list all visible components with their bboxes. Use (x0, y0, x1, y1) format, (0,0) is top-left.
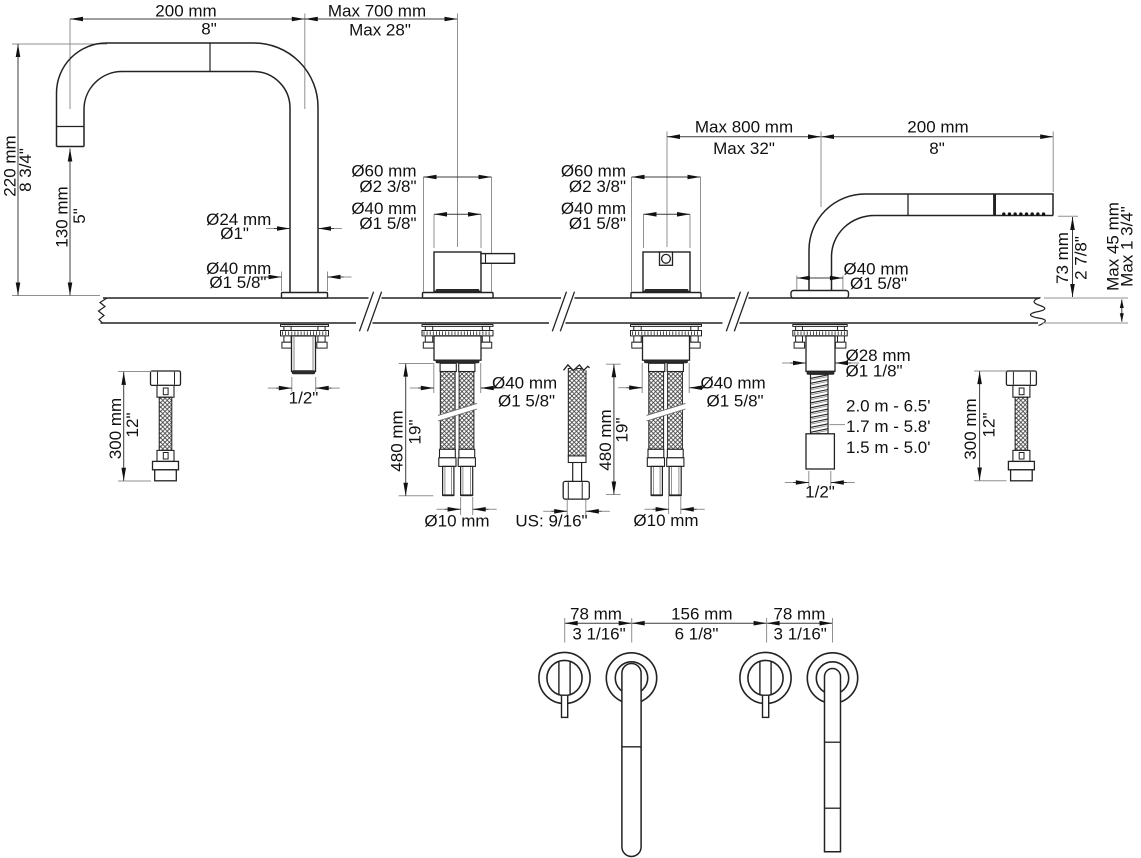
extension lines US 9/16 (566, 500, 568, 515)
svg-text:19": 19" (406, 420, 425, 445)
flex hose bottom collar (157, 450, 174, 461)
hand shower handle seam (907, 194, 909, 216)
serrated lock ring (631, 331, 702, 336)
extension lines handle1 flange (423, 177, 425, 292)
shower hose spiral (811, 374, 829, 434)
dimension 300 mm left (118, 371, 152, 373)
tub spout inner contour (84, 72, 290, 293)
svg-text:Ø40 mm: Ø40 mm (701, 373, 766, 392)
shower hose end fitting (806, 434, 834, 469)
svg-text:Ø1 5/8": Ø1 5/8" (707, 391, 764, 410)
deck thin extension to Max45 dimension (1044, 297, 1128, 299)
dimension Ø60 mm handle1 (424, 176, 492, 178)
hand shower tailpiece body (806, 336, 835, 371)
extension lines spout flange (281, 272, 283, 292)
dimension 480 mm hoses left (399, 363, 434, 365)
tub spout outer contour (57, 43, 319, 293)
dimension 1/2 inch spout connection (276, 387, 292, 389)
dimension 1/2 inch shower connection (793, 482, 809, 484)
flex hose braided body (1015, 397, 1028, 450)
hand shower inner contour (832, 216, 1054, 291)
pipe end line (651, 494, 662, 496)
dimension Ø10 mm pipes left (460, 497, 462, 515)
svg-text:Max 800 mm: Max 800 mm (695, 117, 793, 136)
dimension Ø40 mm spout flange (266, 276, 282, 278)
dimension Ø40 mm under handle1 (418, 387, 434, 389)
valve body under deck (643, 336, 690, 360)
handle2 top button square (660, 252, 673, 265)
mounting nuts (282, 342, 292, 348)
svg-text:Ø1 5/8": Ø1 5/8" (498, 391, 555, 410)
mounting bolt shafts upper (634, 326, 641, 330)
dimension Ø40 mm under handle2 (626, 387, 642, 389)
plan view spout escutcheon outer (606, 653, 656, 703)
svg-text:Max 32": Max 32" (713, 139, 775, 158)
flex hose top collar (157, 385, 174, 397)
braided supply hoses (440, 372, 455, 450)
plan dimension arrows 156mm (632, 621, 645, 626)
extension lines 1/2 inch spout (291, 377, 293, 392)
mounting nuts (423, 342, 436, 348)
dimension Ø40 mm handle1 (434, 213, 481, 215)
extension lines Ø40 under handle2 (641, 363, 643, 393)
plan handle outer circle (539, 652, 590, 703)
handle2 body (643, 252, 690, 292)
spout tailpiece cylinder (292, 336, 316, 372)
svg-text:Ø1": Ø1" (220, 224, 249, 243)
extension line handle2 centre (666, 132, 668, 248)
extension lines handle1 body (433, 214, 435, 248)
dimension Ø28 mm tailpiece (790, 362, 806, 364)
flex hose bottom tip (1011, 470, 1033, 481)
extension line deck level left (12, 295, 100, 297)
dimension Ø10 mm pipes right (668, 496, 670, 514)
svg-text:8": 8" (201, 19, 217, 38)
copper pipes (651, 466, 662, 495)
plan view hand shower escutcheon outer (807, 653, 857, 703)
svg-text:Ø1 1/8": Ø1 1/8" (846, 361, 903, 380)
hand shower head seam (993, 194, 995, 216)
flex hose top collar (1013, 385, 1030, 397)
handle2 button circle (662, 254, 671, 263)
handle1 body (434, 252, 481, 292)
mounting bolt shafts lower (796, 336, 803, 342)
plan view hand shower escutcheon inner (816, 662, 848, 694)
dimension 220 mm spout height (17, 44, 19, 296)
hose hex ends (647, 458, 664, 467)
svg-text:12": 12" (980, 413, 999, 438)
plan handle lever (562, 695, 568, 717)
extension lines hand shower flange (796, 276, 798, 290)
central hose hex nut (563, 481, 589, 499)
mounting nuts (794, 342, 805, 348)
serrated lock ring (281, 331, 329, 336)
dimension 300 mm right (974, 370, 1007, 372)
mounting plate under deck (281, 325, 329, 327)
extension line handle1 centre (457, 14, 459, 248)
svg-text:6 1/8": 6 1/8" (675, 624, 719, 643)
svg-text:78 mm: 78 mm (773, 605, 825, 624)
svg-text:1.7 m - 5.8': 1.7 m - 5.8' (846, 417, 931, 436)
svg-text:1.5 m - 5.0': 1.5 m - 5.0' (846, 438, 931, 457)
extension line hand shower centre (820, 132, 822, 208)
plan dimension arrows 78mm right (767, 621, 780, 626)
svg-text:19": 19" (613, 418, 632, 443)
dimension Ø24 mm spout tube (274, 228, 290, 230)
plan view spout tube (622, 664, 641, 857)
hand shower base flange (791, 291, 849, 299)
spout tailpiece end cap (292, 371, 314, 374)
spout body seam (209, 43, 211, 72)
dimension US: 9/16 inch (551, 510, 567, 512)
svg-text:3 1/16": 3 1/16" (572, 624, 625, 643)
hand shower spray nozzles (1002, 212, 1005, 215)
dimension 73 mm spray height (1072, 217, 1074, 297)
plan handle inner circle (748, 660, 783, 695)
svg-text:Ø1 5/8": Ø1 5/8" (359, 214, 416, 233)
svg-text:156 mm: 156 mm (671, 605, 732, 624)
flex hose bottom nut (153, 461, 179, 469)
svg-text:1/2": 1/2" (289, 388, 319, 407)
hose coupling nuts (440, 363, 456, 371)
hose break mark (647, 403, 686, 421)
svg-text:200 mm: 200 mm (155, 1, 216, 20)
svg-text:3 1/16": 3 1/16" (774, 624, 827, 643)
extension line 73mm top (1058, 215, 1078, 217)
hand shower tailpiece end cap (807, 371, 834, 374)
dimension Max 45 mm deck thickness (1121, 300, 1123, 322)
deck left broken edge (99, 298, 108, 323)
svg-text:8": 8" (929, 139, 945, 158)
central hose torn top (562, 354, 592, 371)
mounting plate under deck (422, 325, 493, 327)
deck top surface line (103, 297, 369, 299)
svg-text:Ø10 mm: Ø10 mm (424, 511, 489, 530)
handle1 flange (423, 293, 494, 299)
svg-text:US: 9/16": US: 9/16" (515, 511, 587, 530)
svg-text:Ø1 5/8": Ø1 5/8" (209, 273, 266, 292)
flex hose top hex nut (1006, 371, 1036, 385)
deck right torn edge (1031, 298, 1046, 326)
extension lines handle2 flange (631, 177, 633, 292)
flex hose top hex nut (151, 371, 181, 385)
flex hose braided body (159, 397, 172, 450)
plan wand joint lines (825, 741, 841, 743)
braided supply hoses (649, 372, 664, 450)
dimension Ø40 mm handle2 (644, 213, 691, 215)
svg-text:2.0 m - 6.5': 2.0 m - 6.5' (846, 396, 931, 415)
extension line hand shower tip (1052, 132, 1054, 193)
handle2 shadow band (645, 289, 688, 291)
deck break mark 1 (359, 292, 373, 332)
mounting nuts (632, 342, 645, 348)
plan handle lever (763, 695, 769, 717)
svg-text:5": 5" (70, 208, 89, 224)
plan handle inner circle (547, 660, 582, 695)
plan handle outer circle (740, 652, 791, 703)
handle1 lever (481, 254, 515, 264)
svg-text:130 mm: 130 mm (53, 186, 72, 247)
extension lines Ø40 under handle1 (433, 363, 435, 393)
dimension Ø60 mm handle2 (632, 176, 701, 178)
valve body end cap (645, 360, 688, 363)
hose hex ends (439, 458, 456, 467)
deck break mark 3 (726, 292, 740, 332)
flex hose bottom tip (155, 470, 177, 481)
plan handle grip bar (558, 661, 560, 695)
mounting bolt shafts lower (284, 336, 291, 342)
svg-text:1/2": 1/2" (805, 482, 835, 501)
plan dimension line (565, 622, 833, 624)
mounting bolt shafts lower (425, 336, 432, 342)
mounting bolt shafts upper (796, 326, 803, 330)
plan handle grip bar (759, 661, 761, 695)
plan view hand shower wand (825, 669, 841, 852)
mounting plate under deck (631, 325, 702, 327)
deck break mark 2 (552, 292, 566, 332)
mounting bolt shafts lower (634, 336, 641, 342)
svg-text:480 mm: 480 mm (388, 410, 407, 471)
hose coupling nuts (649, 363, 665, 371)
svg-text:Ø2 3/8": Ø2 3/8" (569, 177, 626, 196)
serrated lock ring (422, 331, 493, 336)
hand shower outer contour (809, 194, 1053, 291)
svg-text:Ø2 3/8": Ø2 3/8" (359, 177, 416, 196)
plan view spout escutcheon inner (615, 662, 647, 694)
handle2 flange (631, 293, 701, 299)
svg-text:Max 28": Max 28" (349, 20, 411, 39)
deck bottom surface line (101, 322, 357, 324)
central hose ferrule (568, 456, 586, 463)
flex hose bottom collar (1013, 450, 1030, 461)
plan dimension arrows 78mm left (565, 621, 578, 626)
hose ferrules (648, 449, 664, 458)
svg-text:78 mm: 78 mm (570, 605, 622, 624)
plan extension lines (564, 618, 566, 643)
hose break mark (438, 403, 477, 421)
serrated lock ring (793, 331, 847, 336)
plan spout tube joint (622, 746, 641, 748)
svg-text:Ø1 5/8": Ø1 5/8" (569, 214, 626, 233)
flex hose bottom nut (1008, 461, 1034, 469)
dimension Max 700 mm (305, 18, 458, 20)
valve body under deck (434, 336, 481, 360)
svg-text:73 mm: 73 mm (1053, 232, 1072, 284)
svg-text:Max 1 3/4": Max 1 3/4" (1118, 206, 1137, 287)
extension line spout riser centre (304, 14, 306, 110)
pipe end line (443, 494, 454, 496)
svg-text:Ø1 5/8": Ø1 5/8" (850, 274, 907, 293)
svg-text:Max 700 mm: Max 700 mm (328, 1, 426, 20)
spout aerator joint line (57, 126, 85, 128)
dimension 200 mm hand shower (821, 136, 1053, 138)
mounting plate under deck (793, 325, 847, 327)
dimension 130 mm outlet height (69, 149, 71, 296)
extension lines handle2 body (643, 214, 645, 248)
svg-text:12": 12" (123, 413, 142, 438)
svg-text:300 mm: 300 mm (961, 398, 980, 459)
extension line spout top level (12, 43, 107, 45)
mounting bolt shafts upper (284, 326, 291, 330)
hose ferrules (440, 449, 456, 458)
spout outlet end line (57, 146, 85, 148)
svg-text:8 3/4": 8 3/4" (16, 148, 35, 192)
dimension 200 mm spout reach (70, 18, 305, 20)
extension line 200mm left (spout outlet) (69, 19, 71, 109)
leader line 1.7m (830, 424, 846, 426)
valve body end cap (436, 360, 479, 363)
copper pipes (443, 466, 454, 495)
spout base flange (282, 293, 328, 299)
handle1 shadow band (436, 289, 479, 291)
svg-text:Ø40 mm: Ø40 mm (492, 373, 557, 392)
svg-text:Ø10 mm: Ø10 mm (633, 511, 698, 530)
svg-text:2 7/8": 2 7/8" (1072, 236, 1091, 280)
central hose neck (572, 463, 574, 482)
dimension Ø40 mm hand shower flange (797, 277, 843, 279)
dimension Max 800 mm (667, 136, 821, 138)
central hose braided body (568, 369, 586, 457)
extension lines 1/2 inch shower (808, 471, 810, 486)
mounting bolt shafts upper (425, 326, 432, 330)
dimension 480 mm hoses right (606, 363, 621, 365)
svg-text:200 mm: 200 mm (907, 117, 968, 136)
